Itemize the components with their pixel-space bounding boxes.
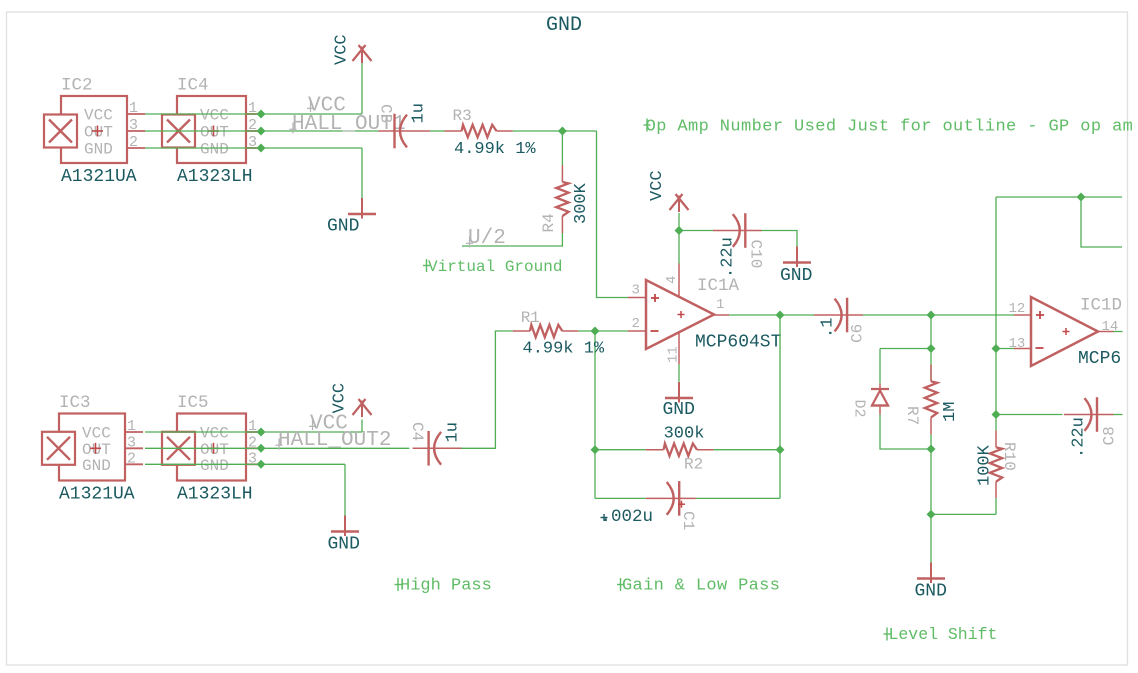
IC IC5 (A1323LH hall sensor) — [162, 393, 261, 505]
svg-text:C8: C8 — [1101, 426, 1119, 445]
supply VCC symbol — [670, 194, 689, 212]
svg-text:IC4: IC4 — [177, 76, 209, 96]
label R2 — [684, 456, 703, 474]
svg-text:VCC: VCC — [82, 425, 111, 443]
wire — [361, 148, 363, 198]
svg-text:1u: 1u — [410, 103, 429, 123]
wire — [462, 233, 562, 246]
label D2 (vertical) — [851, 400, 868, 418]
label C8 (vertical) — [1101, 426, 1119, 445]
wire — [996, 196, 1122, 198]
svg-text:A1321UA: A1321UA — [61, 167, 137, 187]
junction — [992, 344, 1001, 353]
svg-text:R7: R7 — [903, 406, 921, 425]
svg-text:11: 11 — [666, 346, 682, 363]
pin 2 stub — [628, 316, 646, 332]
svg-text:R2: R2 — [684, 456, 703, 474]
svg-text:VCC: VCC — [648, 170, 667, 201]
wire — [578, 330, 628, 332]
label R1 — [521, 309, 540, 327]
value 300K (vertical) — [572, 182, 591, 224]
label R7 (vertical) — [903, 406, 921, 425]
svg-text:GND: GND — [915, 582, 947, 602]
svg-text:GND: GND — [84, 141, 113, 159]
junction — [927, 510, 936, 519]
capacitor C1 — [646, 481, 696, 516]
value .22u (vertical) — [719, 237, 738, 278]
svg-text:Gain & Low Pass: Gain & Low Pass — [622, 577, 780, 596]
wire — [863, 314, 931, 316]
svg-text:300k: 300k — [664, 425, 705, 444]
svg-text:2: 2 — [127, 450, 136, 467]
value .002u — [601, 507, 654, 527]
net label HALL_OUT2 — [276, 429, 392, 452]
svg-text:VCC: VCC — [200, 107, 229, 125]
svg-text:4.99k 1%: 4.99k 1% — [523, 340, 605, 359]
capacitor C6 — [814, 298, 863, 333]
wire — [145, 113, 362, 115]
wire — [931, 513, 996, 515]
svg-text:IC3: IC3 — [59, 393, 91, 413]
svg-text:R1: R1 — [521, 309, 540, 327]
wire — [461, 331, 513, 448]
value 1u (vertical) — [444, 422, 463, 442]
wire — [930, 315, 932, 364]
junction — [1077, 193, 1086, 202]
junction — [257, 444, 266, 453]
wire — [930, 434, 932, 449]
svg-text:VCC: VCC — [200, 425, 229, 443]
resistor R1 — [513, 325, 579, 337]
svg-text:GND: GND — [200, 141, 229, 159]
svg-text:4.99k 1%: 4.99k 1% — [454, 140, 536, 159]
wire — [931, 314, 1014, 316]
ground symbol — [328, 516, 360, 555]
op-amp IC1A — [646, 280, 714, 349]
wire — [996, 414, 1063, 416]
svg-text:1: 1 — [716, 297, 724, 313]
svg-text:.1: .1 — [819, 318, 838, 338]
junction — [927, 344, 936, 353]
value MCP604ST — [695, 333, 782, 353]
wire — [344, 464, 346, 515]
svg-text:12: 12 — [1009, 301, 1026, 317]
wire — [145, 147, 362, 149]
junction — [591, 445, 600, 454]
wire — [678, 364, 680, 381]
value .1 (vertical) — [819, 318, 838, 338]
svg-text:MCP604ST: MCP604ST — [695, 333, 782, 353]
svg-text:OUT: OUT — [200, 124, 229, 142]
ground symbol — [780, 247, 812, 287]
supply VCC symbol — [353, 399, 372, 417]
IC IC4 (A1323LH hall sensor) — [162, 76, 261, 188]
wire — [145, 130, 379, 132]
wire — [930, 364, 932, 381]
svg-text:GND: GND — [82, 457, 111, 475]
svg-text:IC5: IC5 — [177, 393, 209, 413]
wire — [513, 130, 597, 132]
label IC1D — [1080, 296, 1122, 316]
label C3 (vertical) — [377, 104, 395, 123]
label VCC (vertical) — [333, 34, 352, 65]
svg-text:IC1D: IC1D — [1080, 296, 1122, 316]
wire — [145, 463, 345, 465]
svg-text:C10: C10 — [747, 240, 765, 269]
wire — [678, 231, 680, 264]
capacitor C3 — [379, 114, 431, 149]
wire — [679, 230, 713, 232]
junction — [257, 144, 266, 153]
resistor R3 — [445, 125, 513, 137]
wire — [1114, 414, 1123, 416]
svg-text:VCC: VCC — [333, 34, 352, 65]
pin 12 stub — [1009, 301, 1032, 317]
annotation Op Amp note — [644, 118, 1134, 137]
wire — [879, 349, 881, 384]
svg-text:3: 3 — [632, 283, 640, 299]
svg-text:R3: R3 — [453, 107, 472, 125]
ground symbol — [915, 563, 947, 602]
wire — [597, 131, 629, 298]
junction — [992, 410, 1001, 419]
svg-text:U/2: U/2 — [468, 227, 506, 250]
label C6 (vertical) — [849, 324, 867, 343]
svg-text:300K: 300K — [572, 182, 591, 224]
svg-text:14: 14 — [1102, 319, 1119, 335]
IC IC2 (A1321UA hall sensor) — [44, 76, 145, 188]
wire — [995, 498, 997, 514]
wire — [594, 331, 596, 498]
junction — [927, 311, 936, 320]
junction — [591, 327, 600, 336]
annotation Gain & Low Pass — [617, 577, 780, 596]
svg-text:2: 2 — [129, 134, 138, 151]
svg-text:High Pass: High Pass — [400, 577, 492, 596]
svg-text:C1: C1 — [679, 511, 697, 530]
wire — [779, 315, 781, 498]
net label GND (top) — [546, 14, 582, 37]
wire — [762, 231, 798, 247]
svg-text:A1323LH: A1323LH — [177, 485, 253, 505]
wire — [995, 415, 997, 431]
svg-text:GND: GND — [780, 266, 812, 286]
pin 14 stub — [1098, 319, 1118, 335]
wire — [145, 431, 362, 433]
capacitor C8 — [1064, 397, 1114, 432]
value 100K (vertical) — [976, 444, 995, 486]
wire — [361, 420, 363, 433]
junction — [558, 127, 567, 136]
label C1 (vertical) — [679, 511, 697, 530]
pin 11 stub — [666, 333, 682, 365]
svg-text:.22u: .22u — [1070, 417, 1089, 458]
value 1M (vertical) — [941, 402, 960, 422]
wire — [561, 131, 563, 165]
svg-text:1M: 1M — [941, 402, 960, 422]
value 1u (vertical) — [410, 103, 429, 123]
svg-text:GND: GND — [663, 400, 695, 420]
resistor R7 — [925, 364, 937, 434]
svg-text:GND: GND — [546, 14, 582, 37]
ground symbol — [663, 382, 695, 420]
label C4 (vertical) — [408, 422, 426, 441]
pin 13 stub — [1009, 336, 1032, 352]
junction — [257, 127, 266, 136]
svg-text:VCC: VCC — [84, 107, 113, 125]
svg-text:GND: GND — [200, 457, 229, 475]
net label U/2 — [466, 227, 506, 250]
svg-text:OUT: OUT — [84, 124, 113, 142]
resistor R2 — [646, 444, 714, 456]
svg-text:3: 3 — [127, 434, 136, 451]
junction — [776, 445, 785, 454]
svg-text:Virtual Ground: Virtual Ground — [428, 258, 562, 276]
svg-text:100K: 100K — [976, 444, 995, 486]
svg-text:A1323LH: A1323LH — [177, 167, 253, 187]
svg-text:3: 3 — [129, 117, 138, 134]
svg-text:2: 2 — [632, 316, 640, 332]
value .22u (vertical) — [1070, 417, 1089, 458]
value MCP6 (clipped MCP604ST) — [1078, 349, 1121, 369]
wire — [595, 449, 646, 451]
wire — [930, 449, 932, 563]
junction — [776, 311, 785, 320]
wire — [880, 415, 931, 450]
junction — [257, 428, 266, 437]
supply VCC symbol — [353, 45, 372, 63]
svg-text:C3: C3 — [377, 104, 395, 123]
label R10 (vertical) — [1000, 442, 1018, 471]
svg-text:1u: 1u — [444, 422, 463, 442]
wire — [361, 63, 363, 114]
net label VCC — [309, 413, 348, 436]
wire — [696, 497, 780, 499]
junction — [257, 110, 266, 119]
svg-text:Op Amp Number Used Just for ou: Op Amp Number Used Just for outline - GP… — [646, 118, 1134, 137]
svg-text:Level Shift: Level Shift — [889, 625, 998, 644]
svg-text:1: 1 — [129, 100, 138, 117]
svg-text:IC2: IC2 — [61, 76, 93, 96]
wire — [996, 348, 1014, 350]
annotation Level Shift — [884, 625, 998, 644]
svg-text:GND: GND — [327, 217, 359, 237]
capacitor C4 — [413, 431, 462, 466]
junction — [675, 226, 684, 235]
svg-text:13: 13 — [1009, 336, 1026, 352]
svg-text:VCC: VCC — [331, 383, 350, 414]
svg-text:C4: C4 — [408, 422, 426, 441]
label C10 (vertical) — [747, 240, 765, 269]
label IC1A — [697, 276, 740, 296]
net label HALL_OUT1 — [290, 113, 406, 136]
value 4.99k 1% — [454, 140, 536, 159]
value 300k — [664, 425, 705, 444]
svg-text:A1321UA: A1321UA — [59, 485, 135, 505]
pin 4 stub — [664, 264, 680, 298]
label R3 — [453, 107, 472, 125]
wire — [729, 314, 780, 316]
label VCC (vertical) — [648, 170, 667, 201]
junction — [927, 445, 936, 454]
junction — [257, 460, 266, 469]
svg-text:.22u: .22u — [719, 237, 738, 278]
value 4.99k 1% — [523, 340, 605, 359]
svg-text:GND: GND — [328, 535, 360, 555]
wire — [880, 348, 931, 350]
svg-text:HALL_OUT2: HALL_OUT2 — [278, 429, 391, 452]
wire — [1114, 331, 1123, 333]
svg-text:D2: D2 — [851, 400, 868, 418]
net label VCC — [307, 95, 346, 118]
wire — [430, 130, 445, 132]
svg-text:4: 4 — [664, 276, 680, 284]
wire — [780, 314, 814, 316]
ground symbol — [327, 198, 376, 237]
svg-text:1: 1 — [127, 418, 136, 435]
svg-text:R10: R10 — [1000, 442, 1018, 471]
wire — [678, 213, 680, 231]
wire — [145, 447, 409, 449]
resistor R10 — [990, 431, 1002, 499]
svg-text:MCP6: MCP6 — [1078, 349, 1121, 369]
svg-text:IC1A: IC1A — [697, 276, 740, 296]
label VCC (vertical) — [331, 383, 350, 414]
svg-text:C6: C6 — [849, 324, 867, 343]
annotation High Pass — [395, 577, 492, 596]
diode D2 (zener) — [871, 384, 889, 415]
capacitor C10 — [713, 213, 762, 248]
wire — [1081, 197, 1122, 247]
wire — [595, 497, 646, 499]
svg-text:R4: R4 — [540, 213, 558, 232]
annotation Virtual Ground — [423, 258, 562, 276]
pin 1 stub — [714, 297, 729, 315]
label R4 (vertical) — [540, 213, 558, 232]
IC IC3 (A1321UA hall sensor) — [42, 393, 143, 505]
op-amp IC1D — [1031, 297, 1098, 366]
svg-text:.002u: .002u — [601, 507, 654, 527]
wire — [995, 197, 997, 415]
resistor R4 — [556, 165, 568, 233]
wire — [714, 449, 780, 451]
pin 3 stub — [628, 283, 646, 299]
